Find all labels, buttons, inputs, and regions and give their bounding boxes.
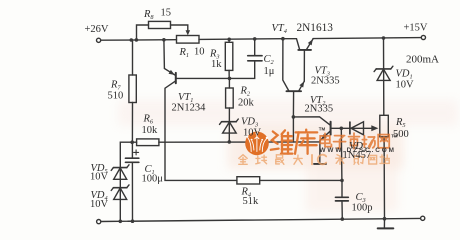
svg-text:10V: 10V: [243, 127, 262, 138]
potentiometer R5: [380, 115, 389, 218]
node R7-R6-C1: [130, 140, 134, 144]
wire bottom rail: [101, 218, 421, 221]
rheostat R1: [177, 30, 200, 43]
svg-text:TM: TM: [319, 126, 326, 131]
svg-text:+15V: +15V: [404, 23, 428, 34]
transistor VT2: [293, 117, 341, 164]
terminal +15V: [421, 35, 425, 39]
zener VD1: [374, 38, 393, 115]
svg-text:510: 510: [108, 91, 124, 102]
svg-text:2N1234: 2N1234: [172, 103, 207, 114]
wire top rail left: [101, 39, 177, 42]
node rail R5: [383, 217, 387, 221]
wire top rail middle: [199, 38, 283, 41]
capacitor C3: [336, 128, 349, 219]
watermark logo circle: [245, 132, 269, 156]
svg-text:51k: 51k: [243, 196, 260, 207]
watermark slogan row: [239, 155, 390, 165]
svg-text:1k: 1k: [211, 59, 222, 70]
resistor R4: [237, 177, 342, 184]
node VT2 base: [340, 127, 344, 131]
node rail C1: [131, 219, 135, 223]
node R4-C3: [340, 179, 344, 183]
svg-text:500: 500: [393, 129, 409, 140]
node rail e: [253, 37, 257, 41]
svg-text:2N335: 2N335: [305, 104, 334, 115]
terminal +26V: [97, 38, 101, 42]
resistor R3: [225, 39, 233, 78]
zener VD4: [111, 185, 129, 200]
node rail d: [227, 38, 231, 42]
wire reference bus: [165, 141, 320, 143]
svg-text:10: 10: [194, 47, 205, 58]
svg-text:10V: 10V: [90, 171, 109, 182]
node VT3 base VT2 collector: [292, 115, 296, 119]
faint scan tint watermark area: [228, 124, 403, 169]
transistor VT1: [164, 40, 237, 181]
faint scan tint band middle: [118, 100, 458, 126]
svg-text:10V: 10V: [90, 199, 109, 210]
svg-text:20k: 20k: [238, 98, 255, 109]
wire top rail right: [313, 38, 421, 39]
watermark char ku: [295, 130, 317, 154]
resistor R7: [129, 40, 136, 142]
watermark char wei: [271, 130, 293, 153]
svg-text:2N1613: 2N1613: [297, 22, 334, 34]
common tick VT2 emitter: [314, 163, 326, 165]
zener VD3: [220, 119, 239, 133]
transistor VT3: [283, 39, 305, 117]
zener VD5: [111, 165, 129, 180]
svg-text:15: 15: [161, 8, 172, 19]
capacitor C1: [126, 142, 139, 221]
svg-text:1μ: 1μ: [264, 66, 275, 77]
node rail c: [162, 38, 166, 42]
faint scan tint lower right: [306, 150, 398, 212]
resistor R2: [226, 78, 234, 141]
svg-text:100p: 100p: [352, 202, 373, 213]
terminal ground right: [421, 216, 425, 220]
wire VT3 base to VT2 collector node: [292, 117, 294, 142]
node rail f: [281, 37, 285, 41]
transistor VT4: [283, 39, 313, 81]
svg-text:+26V: +26V: [85, 24, 109, 35]
node VD3 anode: [228, 140, 232, 144]
node rail g: [382, 36, 386, 40]
node R3-R2-C2-VT1: [228, 77, 232, 81]
terminal ground left: [97, 220, 101, 224]
svg-text:200mA: 200mA: [406, 54, 439, 66]
node rail VD4: [119, 220, 123, 224]
node rail C3: [341, 217, 345, 221]
diode VD2: [341, 122, 378, 135]
resistor R6: [132, 139, 165, 146]
svg-text:10V: 10V: [396, 80, 415, 91]
svg-text:10k: 10k: [142, 125, 159, 136]
resistor R8: [137, 21, 188, 40]
svg-text:100μ: 100μ: [142, 173, 164, 184]
svg-text:1N457: 1N457: [343, 150, 372, 161]
ground tick R5 bottom: [378, 219, 394, 229]
wire zener branch: [120, 142, 132, 221]
node rail b: [135, 38, 139, 42]
capacitor C2: [230, 39, 263, 79]
watermark chars dianzishichangwang: [320, 133, 389, 148]
node rail a: [130, 38, 134, 42]
svg-text:2N335: 2N335: [311, 76, 340, 87]
